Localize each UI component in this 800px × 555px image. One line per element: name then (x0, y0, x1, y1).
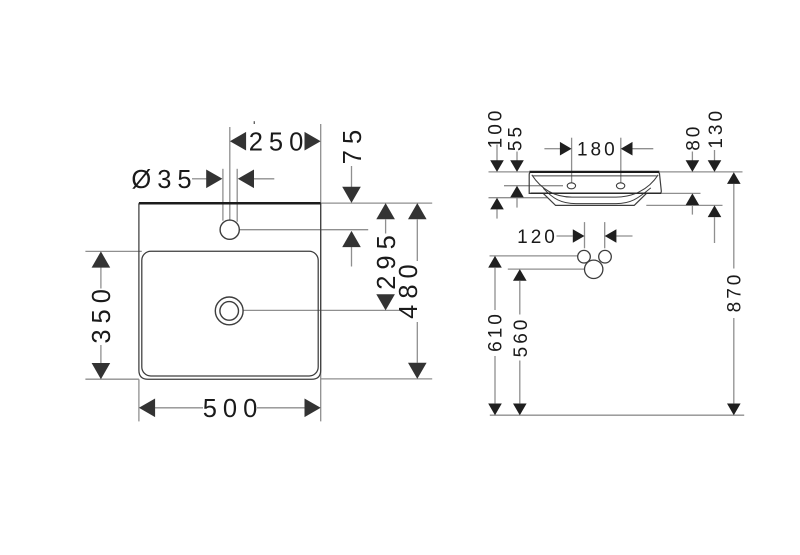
svg-text:500: 500 (203, 395, 264, 423)
svg-text:80: 80 (683, 124, 704, 151)
svg-text:100: 100 (485, 108, 506, 149)
svg-text:75: 75 (339, 124, 367, 164)
svg-text:Ø35: Ø35 (131, 166, 197, 194)
svg-text:180: 180 (577, 140, 618, 161)
svg-text:120: 120 (517, 227, 558, 248)
svg-text:350: 350 (88, 283, 116, 344)
svg-text:250: 250 (249, 129, 310, 157)
svg-text:870: 870 (725, 272, 746, 313)
svg-text:610: 610 (486, 311, 507, 352)
svg-text:130: 130 (706, 108, 727, 149)
svg-text:480: 480 (395, 258, 423, 319)
svg-text:55: 55 (506, 124, 527, 151)
svg-text:560: 560 (511, 317, 532, 358)
